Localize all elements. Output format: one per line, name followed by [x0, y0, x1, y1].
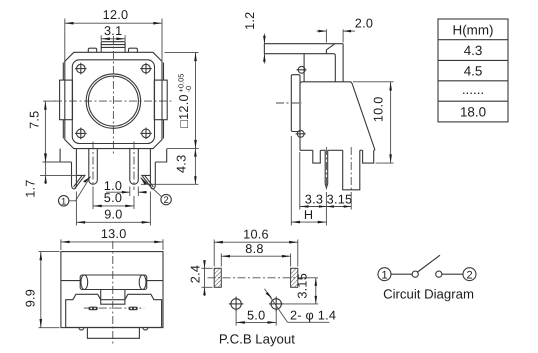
svg-text:7.5: 7.5: [28, 111, 42, 129]
svg-text:1.2: 1.2: [243, 12, 257, 30]
svg-text:10.0: 10.0: [372, 96, 386, 122]
svg-text:3.3: 3.3: [305, 193, 323, 207]
svg-text:5.0: 5.0: [247, 309, 265, 323]
svg-text:Circuit Diagram: Circuit Diagram: [383, 286, 474, 301]
svg-text:5.0: 5.0: [104, 191, 122, 205]
svg-text:□12.0: □12.0: [177, 94, 191, 128]
svg-text:2: 2: [163, 195, 168, 206]
svg-text:2- φ 1.4: 2- φ 1.4: [290, 308, 336, 322]
svg-text:-0: -0: [184, 86, 193, 93]
svg-text:1.7: 1.7: [24, 179, 38, 197]
svg-text:12.0: 12.0: [103, 8, 129, 22]
svg-text:4.3: 4.3: [464, 43, 483, 58]
svg-text:2.0: 2.0: [355, 17, 373, 31]
svg-text:......: ......: [462, 82, 484, 97]
svg-text:2: 2: [466, 269, 472, 281]
svg-text:10.6: 10.6: [243, 228, 269, 242]
svg-text:3.1: 3.1: [104, 24, 122, 38]
svg-text:9.9: 9.9: [23, 289, 37, 307]
svg-text:1: 1: [381, 269, 387, 281]
svg-text:9.0: 9.0: [104, 207, 122, 221]
svg-text:1: 1: [61, 196, 66, 207]
svg-text:3.15: 3.15: [327, 193, 353, 207]
svg-text:H: H: [304, 208, 313, 222]
svg-text:4.5: 4.5: [464, 63, 483, 78]
svg-text:13.0: 13.0: [101, 227, 127, 241]
svg-text:8.8: 8.8: [245, 242, 263, 256]
svg-text:4.3: 4.3: [174, 155, 188, 173]
svg-text:H(mm): H(mm): [453, 22, 494, 37]
svg-text:3.15: 3.15: [296, 273, 310, 299]
svg-text:18.0: 18.0: [460, 104, 486, 119]
svg-text:2.4: 2.4: [189, 265, 203, 283]
svg-text:P.C.B Layout: P.C.B Layout: [219, 332, 295, 347]
